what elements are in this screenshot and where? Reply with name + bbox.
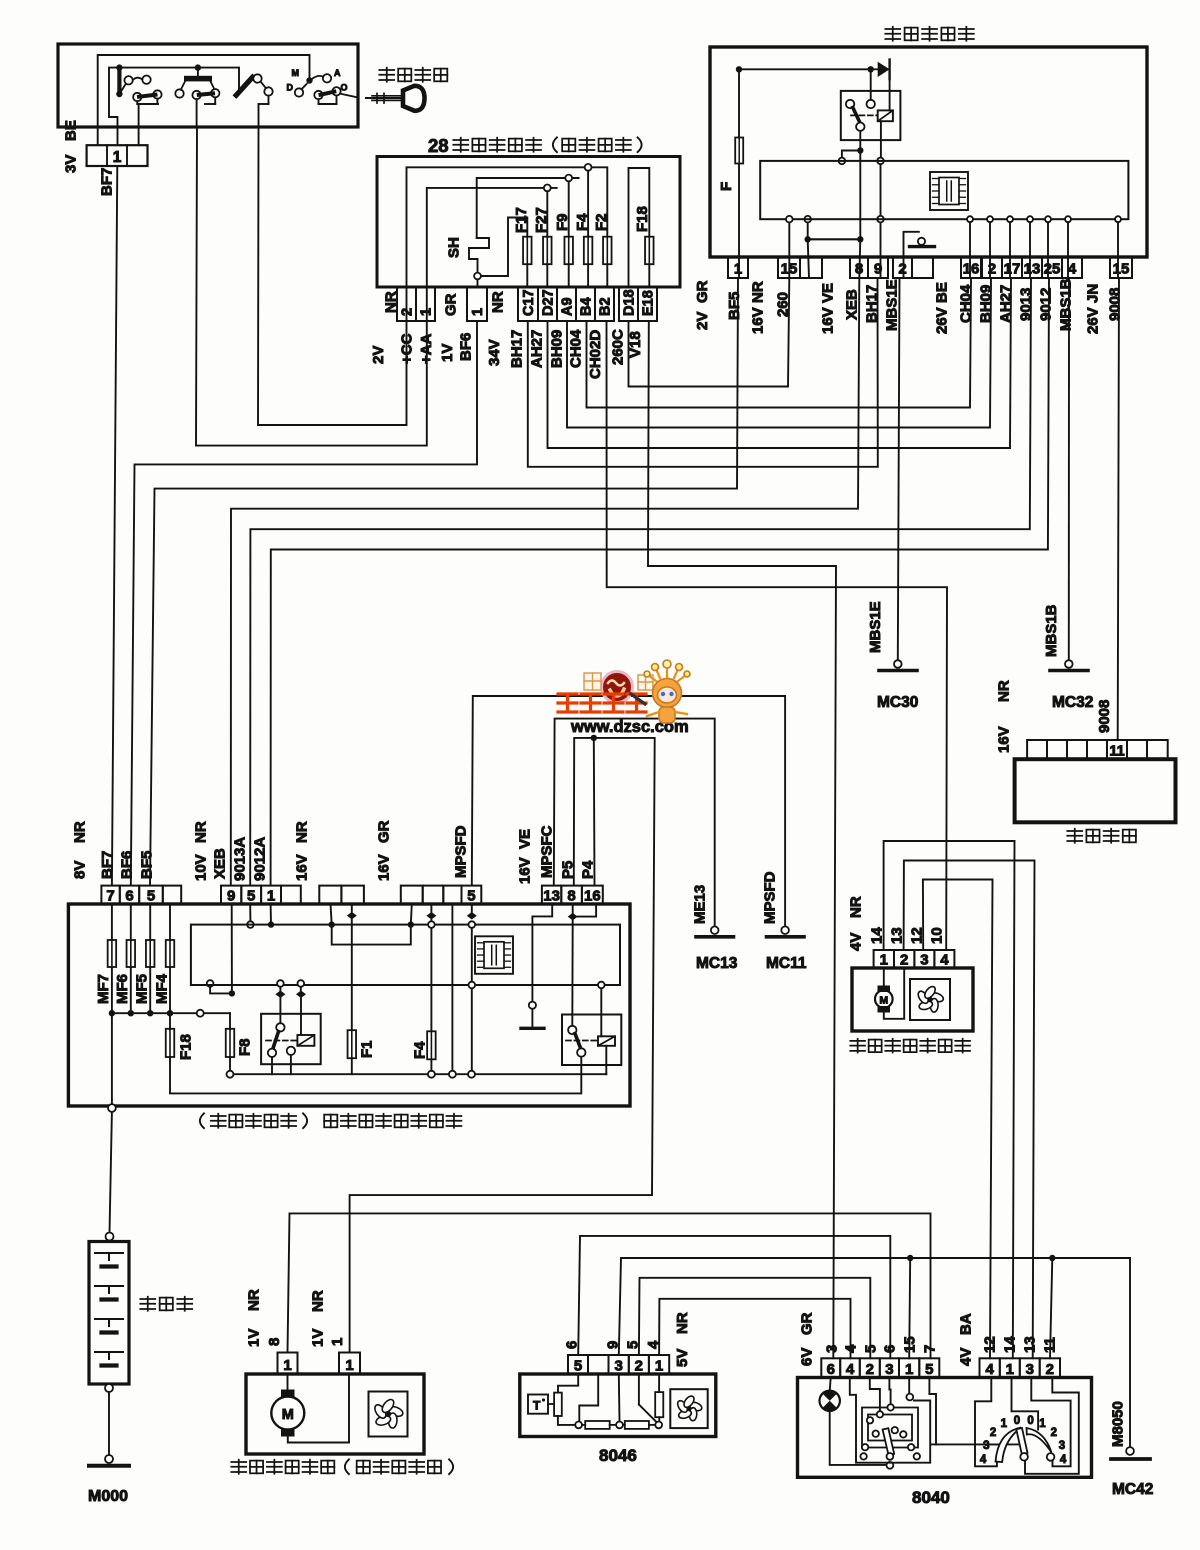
svg-text:2: 2 [1046,1361,1054,1378]
wire MPSFD engine panel pin5 to ground MC11 [472,696,785,926]
wire 260C D18 to control box pin15 [629,278,790,387]
relay K2 contacts [276,1023,284,1031]
svg-text:MC30: MC30 [877,694,918,711]
svg-text:F4: F4 [411,1041,428,1059]
wire P4 drop to engine panel pin 16 [593,738,596,886]
label 诊断插头 [1067,829,1082,843]
svg-text:XEB: XEB [211,848,228,879]
svg-text:MPSFC: MPSFC [538,825,555,878]
wire - F27 column [546,191,548,236]
svg-text:16V: 16V [749,307,766,334]
fuse F9 [564,237,573,265]
svg-text:13: 13 [543,888,560,905]
svg-text:GR: GR [798,1312,815,1335]
node - F27 tap circle [544,185,551,192]
label 点火开关 [379,68,394,82]
svg-text:GR: GR [442,293,459,316]
wire - battery feed through panel [111,1013,113,1104]
watermark logo circle [602,672,633,703]
svg-text:3: 3 [1059,1440,1065,1452]
wire - F1 column from 16V cell [351,904,353,912]
ground MC13 [711,926,719,934]
svg-text:MF5: MF5 [133,974,150,1004]
inner module rectangle [760,161,1128,219]
wire - group3 left pin drop [331,904,332,925]
node - bus pass-through circle [197,1010,204,1017]
connector - diagnostic plug pins [1027,740,1047,759]
svg-text:1V: 1V [439,344,456,362]
svg-text:9012A: 9012A [251,837,268,881]
connector - blower pin right (1V NR 1) [339,1353,360,1375]
wire - module to pin 15 (260) [788,223,790,279]
svg-text:4: 4 [645,1340,662,1349]
svg-text:8040: 8040 [912,1488,950,1507]
wire BH17 C17 to control box pin9 [528,278,878,467]
svg-text:VE: VE [516,829,533,849]
wire - K3 coil feed from module [598,982,605,989]
svg-text:1: 1 [880,952,888,969]
wire - 8046 pin2 internal diagonal [638,1374,640,1405]
node - junction circle a [575,1422,582,1429]
node - bus A circles [428,1071,435,1078]
node - module output circle [1045,216,1051,222]
svg-text:5: 5 [862,1345,879,1353]
svg-text:15: 15 [781,261,798,278]
switch SW1 lever [139,95,156,97]
wire - F1 to bus A [351,1058,353,1074]
wire - S1 to pin 2 MBS1E [903,257,905,278]
svg-text:16: 16 [584,888,601,905]
ground - internal chassis point [529,1002,536,1009]
svg-text:C17: C17 [521,289,537,316]
wire - SH to F9 rail [477,178,579,238]
svg-text:MC42: MC42 [1112,1481,1153,1498]
svg-text:16V: 16V [375,854,392,881]
node - dot to 8040 pin15 [907,1255,913,1261]
svg-text:MC32: MC32 [1052,694,1093,711]
wire - module output stem [1029,222,1031,278]
node - module output circle [1007,216,1013,222]
svg-text:3: 3 [920,952,928,969]
svg-text:8: 8 [855,261,863,278]
wire - pin 8 P5 to relay K3 [572,904,574,913]
label 鼓风机电动机（若为独立式） [231,1460,246,1474]
svg-text:BE: BE [62,120,79,141]
wire - coil branch to BH17 pin 9 [880,223,882,279]
svg-text:1: 1 [329,1338,346,1346]
svg-text:5: 5 [247,888,255,905]
svg-text:1: 1 [267,888,275,905]
svg-text:14: 14 [868,927,885,944]
wire 9008 control box pin15 to diagnostic plug pin11 [1118,278,1119,740]
svg-text:1: 1 [1039,1418,1046,1430]
svg-text:4: 4 [985,1361,994,1378]
wire - +CC to F4/F2 rail [407,167,608,287]
svg-text:6: 6 [125,888,133,905]
node - battery top circle [106,1233,114,1241]
wire - 8046 pin3 internal [618,1374,621,1422]
svg-text:D27: D27 [541,289,557,316]
selector switch (8040 right mechanism) maze paths [975,1378,997,1467]
selector contact circles [1020,1453,1028,1461]
svg-text:F2: F2 [593,213,610,231]
svg-text:13: 13 [888,927,905,944]
wire - module output stem [1117,222,1119,278]
wire - module output stem [1047,222,1049,278]
wire - SW2 stems [196,99,198,126]
svg-text:BH09: BH09 [548,330,565,368]
wire - ignition internal bus 1 [98,55,310,145]
watermark mascot [631,660,690,723]
svg-text:MBS1B: MBS1B [1057,278,1074,331]
svg-text:2: 2 [990,1427,996,1439]
svg-text:A: A [334,68,341,78]
fuse MF4 with feed [169,904,171,940]
fuse F18 branch [169,1013,171,1029]
wire - module output stem [1067,222,1069,278]
switch SW2 feed dot [195,64,201,70]
node - P4 tap dot [591,735,597,741]
wire - link 260 branch [804,216,811,223]
svg-text:2: 2 [635,1358,643,1375]
svg-text:17: 17 [1004,261,1021,278]
relay K1 dashed link [851,114,877,116]
svg-text:25: 25 [1044,261,1061,278]
svg-text:28: 28 [428,135,449,156]
node - module output circle [967,216,973,222]
wire - F4 column [587,171,589,237]
svg-text:0: 0 [1027,1415,1033,1427]
wire BF7 ignition to engine panel pin 7 [112,166,117,886]
selector lever [1016,1428,1027,1454]
svg-text:9: 9 [604,1341,621,1349]
wire - lamp return to lever contact [830,1411,887,1465]
svg-text:11: 11 [1109,744,1124,760]
wire - module output stem [989,222,991,278]
connector - cabin fuse box outputs [397,287,416,321]
svg-text:VE: VE [819,283,836,303]
node - bus2 junction dot [116,64,122,70]
svg-text:MBS1B: MBS1B [1043,604,1060,657]
svg-text:2: 2 [898,261,906,278]
wire 8046 pin3 bus to 8040 pins and ground MC42 [619,1258,1130,1355]
svg-text:12: 12 [981,1336,998,1353]
svg-text:M: M [282,1407,294,1423]
svg-text:4: 4 [842,1344,859,1353]
diagnostic plug box 诊断插头 [1015,759,1176,822]
wire air-inlet pin1 to 8040 pin 14 [884,841,1015,1358]
svg-text:13: 13 [1021,1336,1038,1353]
svg-text:1: 1 [113,149,122,166]
wire - 8046 pin5 internal [558,1374,578,1393]
svg-text:16V: 16V [819,307,836,334]
svg-text:NR: NR [71,821,88,843]
svg-text:15: 15 [1113,261,1130,278]
svg-text:B4: B4 [579,297,595,316]
svg-text:5V: 5V [674,1349,691,1367]
svg-text:SH: SH [445,237,462,258]
svg-text:5: 5 [624,1341,641,1349]
ground MC30 [894,660,902,668]
svg-text:NR: NR [995,680,1012,702]
svg-text:T: T [533,1399,541,1413]
air-inlet motor box [852,968,973,1031]
svg-text:4: 4 [1060,1454,1067,1466]
svg-text:260C: 260C [609,329,626,365]
wire - MF fuse outputs to bus [111,967,113,1013]
wire - R1 bottom to junction a [558,1416,575,1425]
svg-text:BA: BA [957,1313,974,1335]
svg-text:2V: 2V [694,312,711,330]
svg-text:3: 3 [823,1345,840,1353]
svg-text:12: 12 [908,927,925,944]
connector - panel top pins [101,886,119,904]
svg-text:4: 4 [1068,261,1077,278]
connector - control box bottom pins [728,257,748,278]
wire - relay lever output [859,131,861,148]
svg-text:BE: BE [933,282,950,303]
connector - 8040 row1 pins [821,1358,840,1377]
svg-text:1: 1 [905,1361,913,1378]
node - module output circles [786,216,793,223]
fuse F17 [523,237,532,265]
selector left tick [983,1443,997,1445]
svg-text:BF6: BF6 [118,851,135,879]
svg-text:4: 4 [980,1454,987,1466]
wire - maze link to selector [931,1443,1021,1445]
svg-text:16V: 16V [516,857,533,884]
svg-text:F8: F8 [236,1038,253,1056]
svg-text:P5: P5 [559,861,576,879]
node - panel bottom pass-through circle [108,1104,116,1112]
fuse MF7 with feed [111,904,113,940]
svg-text:AH27: AH27 [528,330,545,368]
wire - motor return to pin2 [884,968,904,1019]
svg-text:4V: 4V [957,1348,974,1366]
wire - K3 coil to bus A [605,1046,607,1074]
node - module output circle [1115,216,1121,222]
svg-text:NR: NR [847,896,864,918]
connector - ignition plug 1 (3V BE / BF7) [87,145,148,166]
svg-text:9008: 9008 [1096,700,1113,733]
node - F4 tap circle [585,164,592,171]
blower motor box 鼓风机电动机 [246,1374,424,1454]
svg-text:MBS1E: MBS1E [883,279,900,331]
svg-text:M000: M000 [88,1488,128,1505]
wire - group4 cell3 column [451,904,453,1071]
svg-text:M: M [879,995,888,1007]
node - module output circle [1065,216,1071,222]
wire - module output stem [969,222,971,278]
temp sensor T [528,1395,548,1414]
svg-text:10: 10 [928,927,945,944]
wire - motor return to right pin [288,1374,349,1443]
svg-text:F17: F17 [513,207,530,233]
battery 蓄电池 [89,1242,129,1385]
wire - drop to ground M8050/MC42 [1129,1258,1131,1447]
relay K2 box (left) [261,1014,321,1064]
svg-text:CH04: CH04 [567,329,584,368]
watermark text 维库一下 [558,694,646,712]
resistor R1 (vertical) [554,1393,562,1416]
wire - SW1 stems [136,101,138,104]
wire - MPSFD column [471,904,473,912]
svg-text:A9: A9 [560,297,576,316]
relay K3 box (right) [562,1015,621,1066]
wire - key line into box [340,94,358,98]
fuse MF6 with feed [130,904,132,940]
svg-text:M8050: M8050 [1109,1401,1126,1447]
svg-text:BF5: BF5 [138,851,155,879]
relay K2 feed stems with diamonds [277,980,284,987]
fuse F2 [603,237,612,265]
svg-text:F18: F18 [177,1034,194,1060]
node - junction circle b [616,1422,623,1429]
wire XEB control box pin8 to engine panel pin 9 [231,278,860,886]
svg-text:8046: 8046 [599,1446,637,1465]
node - MF bus dots [109,1010,115,1016]
switch SW4 lever [321,92,335,95]
svg-text:4: 4 [940,952,949,969]
wire - pin 16 P4 into diamond [578,904,596,917]
unit 8046 box [520,1374,716,1437]
wire - relay K1 supply stem [870,69,872,100]
wire - module output stem [1009,222,1011,278]
svg-text:MC13: MC13 [696,955,738,972]
svg-text:BF7: BF7 [98,168,115,196]
svg-text:GR: GR [375,820,392,843]
svg-text:MC11: MC11 [766,955,807,972]
svg-text:NR: NR [192,821,209,843]
svg-text:26V: 26V [1084,307,1101,334]
svg-text:16V: 16V [293,854,310,881]
wire - pin 13 MPSFC to internal ground [532,904,552,1002]
wire - +AA to F27 rail [427,188,557,287]
node - rail dots [736,66,742,72]
svg-text:1: 1 [283,1357,291,1374]
wire - ignition internal bus 2 to pin 1 [109,68,239,145]
panel title （在发动机舱内）熔断器盒控制面板 [200,1113,204,1128]
switch S1 (test contact to ground plate) [904,232,919,257]
wire MPSFC engine panel pin13 to ground MC13 [554,719,715,927]
svg-text:NR: NR [749,281,766,303]
svg-text:1V: 1V [245,1329,262,1347]
relay K3 coil [598,1036,615,1046]
wire - F18 to bottom bus C [170,1057,581,1094]
wire 8046 pin5 to 8040 pin6 (row1 3) [578,1236,890,1358]
svg-text:1: 1 [734,261,742,278]
wire 9012 control box pin25 to engine panel [271,278,1049,886]
fan symbol (8046) [670,1389,707,1428]
fan symbol (blower) [369,1392,408,1437]
svg-text:1: 1 [1006,1361,1014,1378]
svg-text:5: 5 [574,1358,582,1375]
wire air-inlet pin2 to 8040 pin 13 [904,861,1035,1359]
label 蓄电池 [140,1297,155,1311]
switch SW4 contacts [323,74,331,82]
svg-text:F4: F4 [574,213,591,231]
node - F9 tap circle [565,175,572,182]
resistor R2 (horizontal) [582,1424,585,1426]
IC U1 (control box) [930,172,968,210]
wire 9013 control box pin13 to engine panel [250,278,1031,886]
svg-text:9012: 9012 [1037,288,1054,321]
lamp symbol (8040) [830,1378,831,1392]
svg-text:34V: 34V [486,339,503,366]
svg-text:GR: GR [694,280,711,303]
wire - pin 1 9012A drop [270,904,272,925]
wire - lever output down to XEB pin 8 [859,151,861,236]
svg-text:8: 8 [266,1338,283,1346]
wire - F4 to bus A [430,1059,432,1070]
svg-text:NR: NR [382,291,399,313]
wire CH02D B2 to air-inlet motor pin 4 [607,321,948,950]
ground MC42 [1126,1447,1134,1455]
svg-text:10V: 10V [192,854,209,881]
svg-text:NR: NR [245,1289,262,1311]
ground M000 [105,1455,113,1463]
relay K1 box [841,91,901,140]
label 进气风门电动机 [850,1039,865,1053]
unit 8040 box [798,1378,1092,1478]
svg-text:2: 2 [866,1361,874,1378]
relay K1 lever [853,108,860,123]
relay K2 coil [297,1035,314,1046]
wire - SW3 stems [268,96,270,104]
inner module rectangle [191,925,620,985]
svg-text:5: 5 [147,888,155,905]
motor M (air-inlet) [883,968,885,987]
svg-text:2: 2 [988,261,996,278]
relay K1 contacts [846,100,854,108]
wire - K2 outputs to bus A [271,1057,273,1074]
svg-text:P4: P4 [579,860,596,879]
smart control box 智能控制盒 title [885,27,900,41]
svg-text:NR: NR [489,291,506,313]
wire - bottom bus A [234,1073,607,1075]
resistor R4 (vertical) from pin1 [658,1374,660,1392]
node - battery bottom circle [105,1384,113,1392]
svg-text:NR: NR [293,821,310,843]
connector - 8046 top pins [568,1355,588,1374]
wire - group4 cell1 pin drop [411,904,412,925]
wire air-inlet pin3 to 8040 pin 12 [923,880,993,1359]
svg-text:M: M [292,68,300,78]
wire - 8046 cell2 internal [579,1374,598,1421]
switch SW4 feed dot [306,77,312,83]
wire - top feed rail [738,69,740,137]
svg-text:14: 14 [1001,1336,1018,1353]
svg-text:1: 1 [470,308,486,316]
cabin fuse box body [377,157,680,288]
svg-text:8V: 8V [71,861,88,879]
svg-text:11: 11 [1041,1337,1058,1353]
wire - pin 5 9013A drop [249,904,251,921]
node - module output circle [1027,216,1033,222]
fan symbol (air-inlet) [910,979,950,1020]
svg-text:2V: 2V [370,346,387,364]
svg-text:JN: JN [1084,284,1101,303]
svg-text:8: 8 [567,888,575,905]
motor M (blower) [287,1374,289,1391]
wire blower left pin to 8040 row1 pin5 [288,1213,931,1358]
svg-text:7: 7 [921,1345,938,1353]
ignition switch box (点火开关) [58,44,358,127]
svg-text:2: 2 [900,952,908,969]
wire MBS1B control box pin4 to ground MC32 [1068,278,1070,660]
switch SW2 contacts [175,89,183,97]
wire - battery to ground M000 [108,1392,110,1455]
